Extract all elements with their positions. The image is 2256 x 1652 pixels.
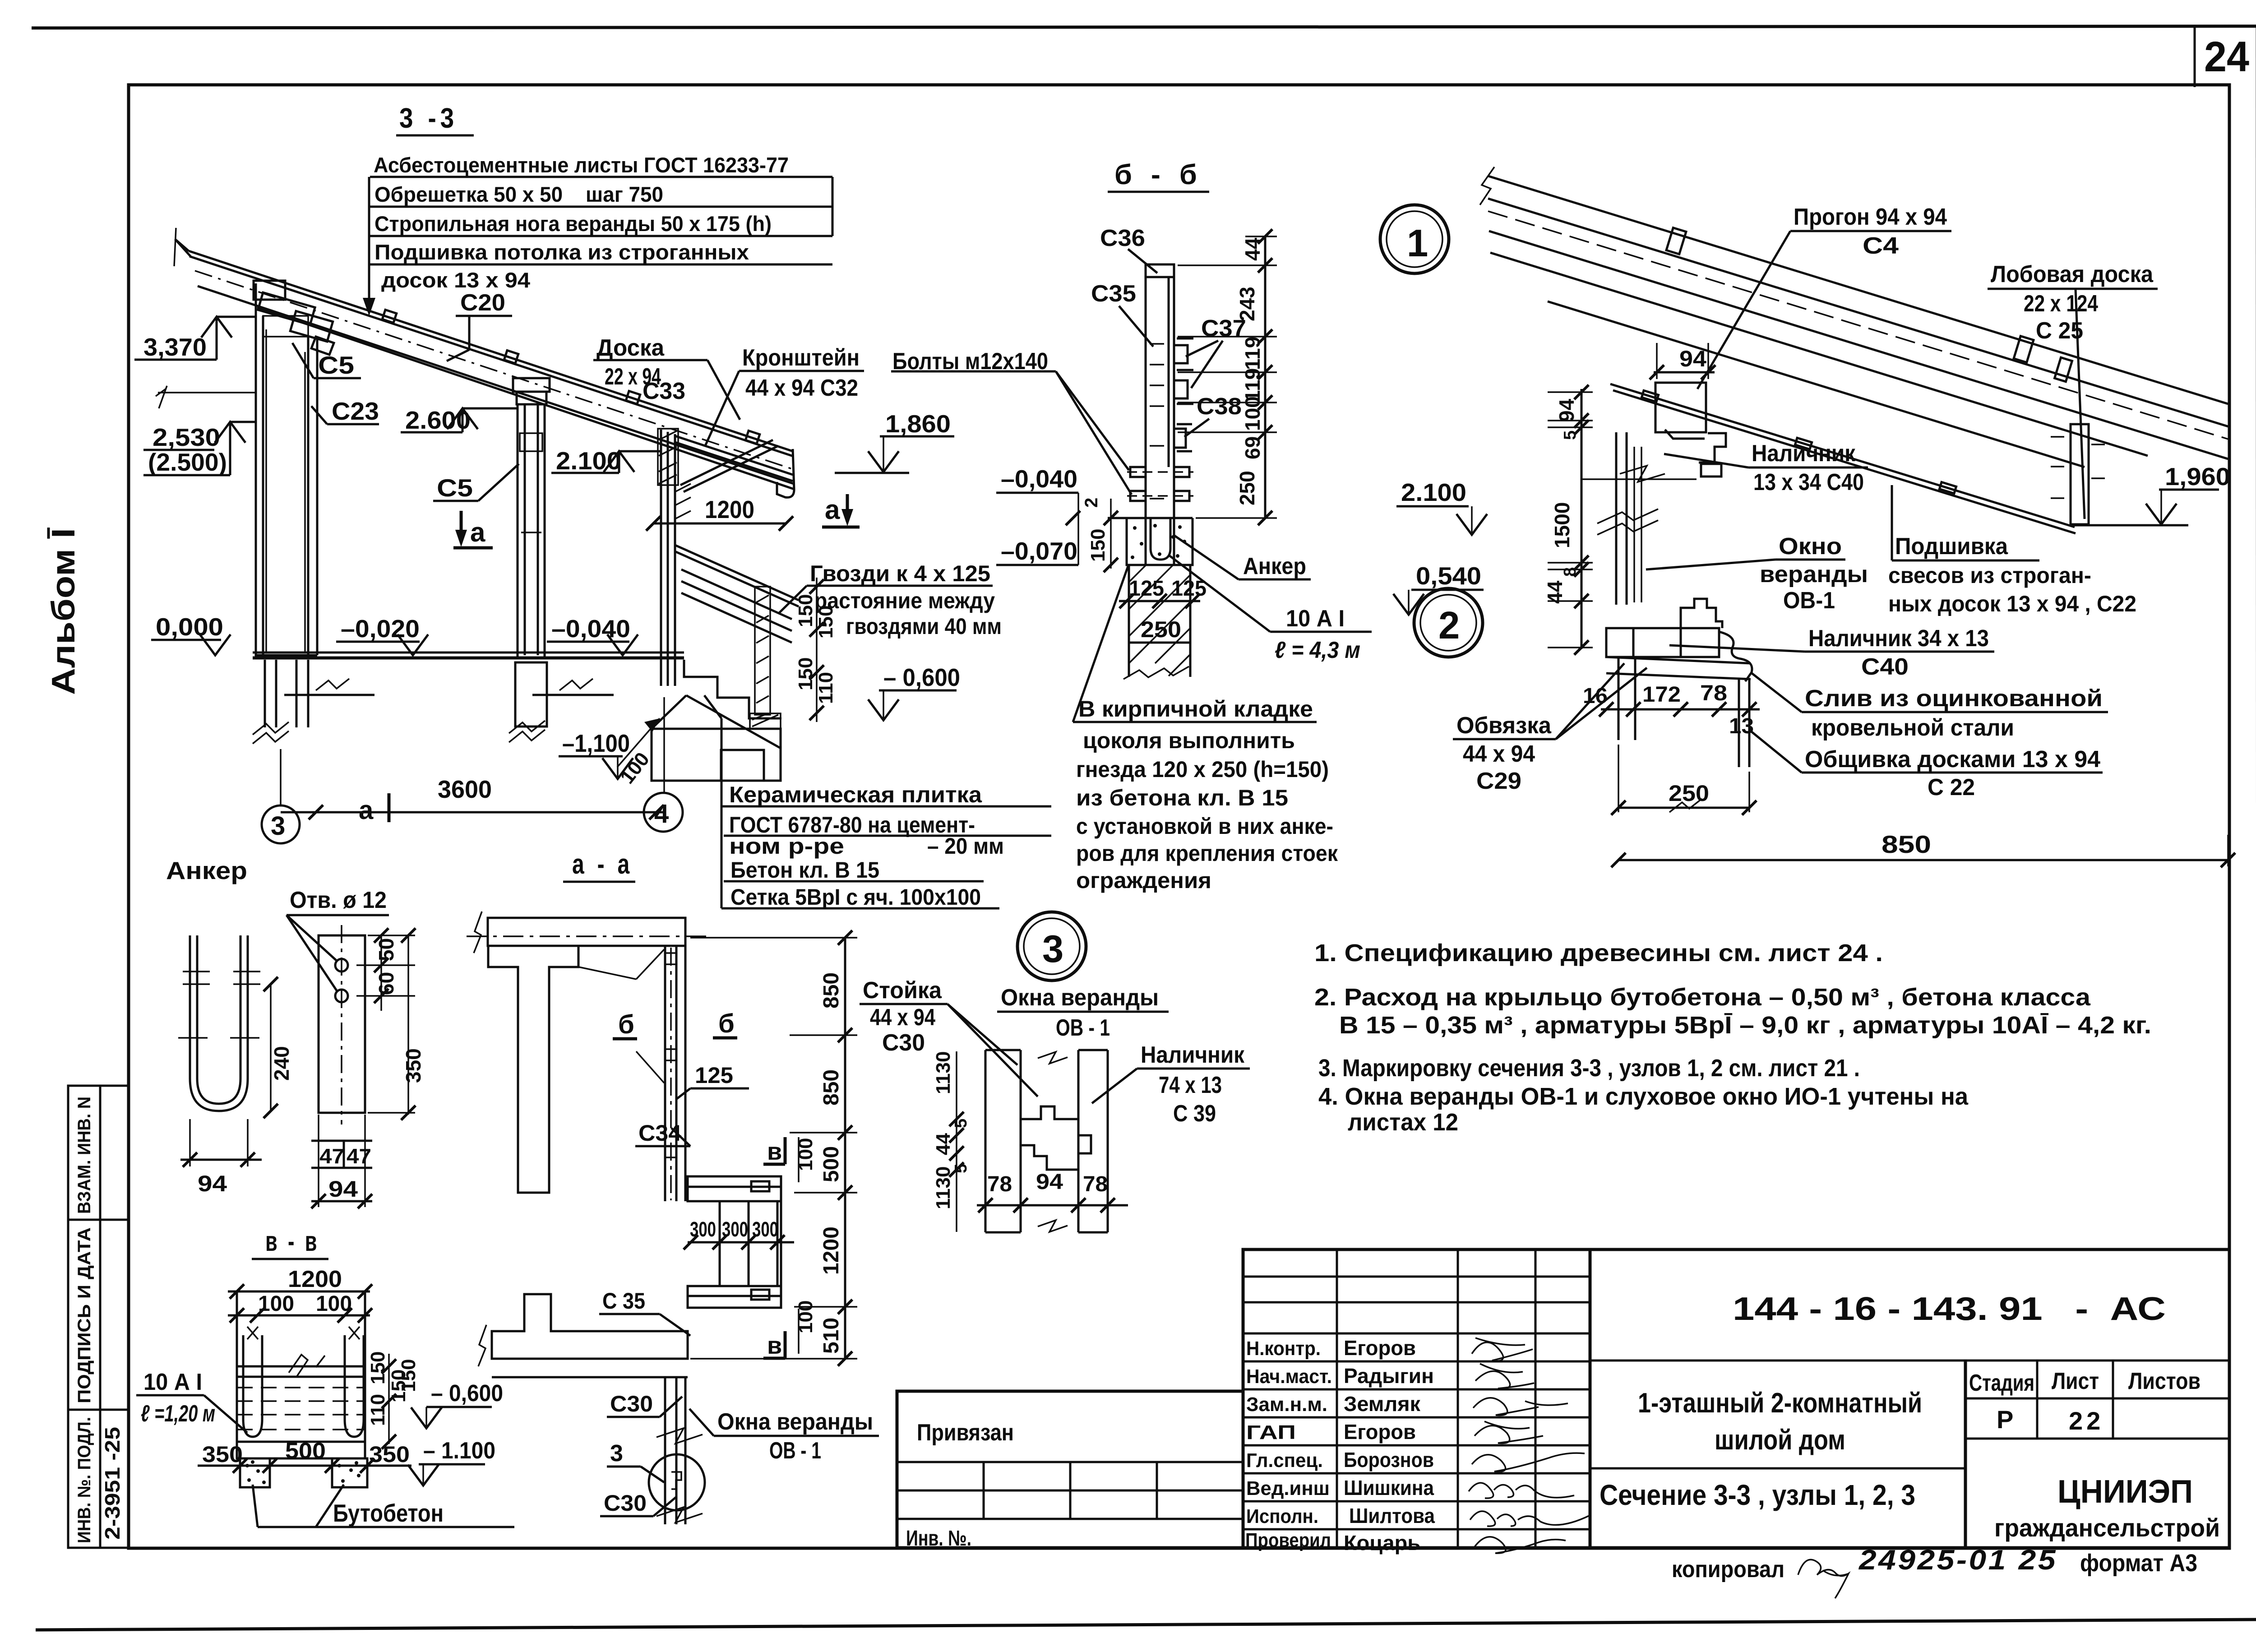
svg-text:С34: С34 xyxy=(638,1120,681,1146)
svg-text:Стропильная нога веранды 50: Стропильная нога веранды 50 х 175 (h) xyxy=(374,212,772,236)
svg-text:б - б: б - б xyxy=(1114,159,1202,190)
nalichnik step profile xyxy=(1699,433,1726,477)
roof dash-dot centreline xyxy=(195,271,793,469)
svg-text:94: 94 xyxy=(1679,346,1706,371)
svg-text:50: 50 xyxy=(374,938,398,961)
svg-text:ном р-ре: ном р-ре xyxy=(729,833,844,859)
window post plan upper xyxy=(665,946,685,1201)
svg-text:125: 125 xyxy=(695,1063,733,1088)
svg-text:–0,070: –0,070 xyxy=(1001,537,1077,565)
svg-text:С38: С38 xyxy=(1197,393,1242,420)
svg-text:Сетка 5ВрІ с яч. 100х100: Сетка 5ВрІ с яч. 100х100 xyxy=(730,884,981,910)
svg-text:ℓ = 4,3 м: ℓ = 4,3 м xyxy=(1275,637,1360,663)
svg-text:125: 125 xyxy=(1129,577,1164,601)
svg-text:Инв. №.: Инв. №. xyxy=(906,1527,971,1550)
svg-text:б: б xyxy=(718,1009,735,1038)
svg-text:Вед.инш: Вед.инш xyxy=(1246,1477,1330,1499)
svg-text:Нач.маст.: Нач.маст. xyxy=(1246,1365,1332,1388)
svg-text:850: 850 xyxy=(1882,830,1931,858)
svg-text:Лист: Лист xyxy=(2052,1368,2099,1394)
svg-text:Егоров: Егоров xyxy=(1344,1420,1416,1444)
svg-text:в: в xyxy=(767,1138,782,1165)
svg-text:С33: С33 xyxy=(643,378,685,404)
post board joint dashes xyxy=(1150,344,1164,499)
rafter line lower xyxy=(1548,301,2085,467)
svg-text:Бетон кл. В 15: Бетон кл. В 15 xyxy=(730,857,879,883)
svg-text:Радыгин: Радыгин xyxy=(1344,1364,1434,1388)
svg-text:100: 100 xyxy=(1241,396,1264,431)
svg-text:С30: С30 xyxy=(882,1030,925,1056)
roof sheet upper line xyxy=(189,251,793,456)
svg-text:510: 510 xyxy=(819,1318,843,1354)
svg-text:С20: С20 xyxy=(460,290,505,316)
svg-text:С23: С23 xyxy=(332,397,379,425)
roof board band xyxy=(198,286,794,489)
sill box upper xyxy=(688,1176,781,1201)
svg-text:Обрешетка 50 х 50 шаг 750: Обрешетка 50 х 50 шаг 750 xyxy=(374,182,663,206)
top beam plan xyxy=(488,918,685,946)
left wall xyxy=(256,283,317,658)
svg-text:8: 8 xyxy=(1561,567,1580,577)
svg-text:110: 110 xyxy=(367,1394,389,1426)
sheet number box xyxy=(2194,27,2196,87)
middle post cap beam xyxy=(513,378,550,404)
podshivka band xyxy=(1610,384,2076,533)
window frame lines right of post xyxy=(1634,447,1641,602)
svg-text:ограждения: ограждения xyxy=(1076,868,1211,893)
board right of post xyxy=(1739,679,1749,767)
window frame profile between posts xyxy=(1021,1106,1091,1170)
post below detail2 xyxy=(1618,657,1635,740)
svg-text:Окна веранды: Окна веранды xyxy=(717,1409,873,1435)
svg-text:Прогон 94 х 94: Прогон 94 х 94 xyxy=(1794,204,1947,230)
svg-text:94: 94 xyxy=(1555,398,1578,422)
svg-text:а: а xyxy=(470,517,485,547)
svg-text:С 22: С 22 xyxy=(1928,774,1975,801)
svg-text:Лобовая доска: Лобовая доска xyxy=(1991,261,2154,287)
v-v rotated dim labels xyxy=(367,1351,410,1426)
svg-text:– 0,600: – 0,600 xyxy=(431,1380,503,1407)
svg-text:Керамическая плитка: Керамическая плитка xyxy=(729,782,982,807)
svg-text:кровельной стали: кровельной стали xyxy=(1811,715,2014,741)
svg-text:243: 243 xyxy=(1235,287,1259,321)
svg-text:Наличник: Наличник xyxy=(1141,1042,1245,1068)
svg-text:3,370: 3,370 xyxy=(143,333,207,361)
svg-text:С35: С35 xyxy=(1091,281,1136,307)
svg-text:С30: С30 xyxy=(610,1391,653,1416)
svg-text:24: 24 xyxy=(2204,33,2249,81)
window below floor xyxy=(665,1377,685,1524)
svg-text:350: 350 xyxy=(402,1048,425,1083)
svg-text:–0,040: –0,040 xyxy=(551,615,630,643)
svg-text:ИНВ. №. ПОДЛ.: ИНВ. №. ПОДЛ. xyxy=(74,1417,94,1543)
svg-text:144 - 16 - 143. 91 - АС: 144 - 16 - 143. 91 - АС xyxy=(1733,1291,2166,1327)
svg-text:1200: 1200 xyxy=(705,495,754,523)
svg-text:С5: С5 xyxy=(437,474,473,502)
svg-text:ОВ-1: ОВ-1 xyxy=(1783,588,1835,614)
svg-text:С30: С30 xyxy=(604,1490,647,1516)
svg-text:ВЗАМ. ИНВ. N: ВЗАМ. ИНВ. N xyxy=(74,1097,94,1214)
svg-text:ОВ - 1: ОВ - 1 xyxy=(1056,1015,1110,1041)
sheet joint marks on roof xyxy=(1666,228,2072,382)
lower T wall plan xyxy=(492,1294,688,1359)
svg-text:44 х 94: 44 х 94 xyxy=(870,1004,935,1031)
sheet outer top border line xyxy=(32,26,2256,28)
svg-text:С4: С4 xyxy=(1863,233,1899,259)
svg-text:С40: С40 xyxy=(1861,654,1909,680)
svg-text:250: 250 xyxy=(1235,471,1259,505)
svg-text:Асбестоцементные листы ГОСТ 1: Асбестоцементные листы ГОСТ 16233-77 xyxy=(374,153,789,177)
grid circle 4 xyxy=(644,793,683,832)
svg-text:22: 22 xyxy=(2069,1407,2104,1435)
svg-text:ПОДПИСЬ И ДАТА: ПОДПИСЬ И ДАТА xyxy=(74,1227,94,1403)
wall break mark detail1 xyxy=(1620,466,1665,482)
leader dims 940 wall xyxy=(158,392,256,393)
node circle 1 xyxy=(1380,205,1449,273)
pier break marks xyxy=(253,722,289,744)
svg-text:Окно: Окно xyxy=(1779,533,1842,560)
bracket С38 xyxy=(1174,424,1192,451)
vertical bars between sills (300 300 300) xyxy=(720,1201,781,1286)
signature names column xyxy=(1344,1336,1435,1555)
svg-text:250: 250 xyxy=(1669,781,1709,806)
svg-text:1200: 1200 xyxy=(819,1226,843,1275)
svg-text:ЦНИИЭП: ЦНИИЭП xyxy=(2057,1474,2193,1510)
svg-text:в: в xyxy=(767,1332,782,1359)
svg-text:Отв. ø 12: Отв. ø 12 xyxy=(290,887,387,913)
right post top hatch block xyxy=(658,429,678,485)
svg-text:Проверил: Проверил xyxy=(1245,1529,1331,1551)
svg-text:500: 500 xyxy=(285,1438,326,1463)
roof right end cut xyxy=(777,449,794,497)
svg-text:С5: С5 xyxy=(318,351,354,379)
svg-text:0,000: 0,000 xyxy=(156,613,223,641)
svg-text:досок 13 х 94: досок 13 х 94 xyxy=(381,268,530,292)
svg-text:Наличник: Наличник xyxy=(1752,440,1856,467)
svg-text:Привязан: Привязан xyxy=(917,1420,1014,1446)
floor line xyxy=(253,657,684,660)
svg-text:В 15 – 0,35 м³ , арматуры 5: В 15 – 0,35 м³ , арматуры 5ВрĪ – 9,0 кг … xyxy=(1339,1012,2151,1039)
svg-text:3: 3 xyxy=(610,1440,623,1467)
svg-text:78: 78 xyxy=(987,1172,1012,1196)
svg-text:Егоров: Егоров xyxy=(1344,1336,1416,1360)
svg-text:Слив из оцинкованной: Слив из оцинкованной xyxy=(1805,685,2103,712)
footings stippled xyxy=(240,1458,367,1487)
svg-text:13: 13 xyxy=(1729,714,1754,738)
svg-text:В кирпичной кладке: В кирпичной кладке xyxy=(1078,696,1313,722)
boards cross sections on podshivka xyxy=(1641,390,1956,493)
break marks detail3 xyxy=(1038,1052,1068,1064)
spec table rules xyxy=(369,177,832,296)
svg-text:Гвозди к 4 х 125: Гвозди к 4 х 125 xyxy=(810,561,990,586)
left wall pier below floor xyxy=(265,660,308,727)
svg-text:150: 150 xyxy=(1087,529,1109,562)
svg-text:1130: 1130 xyxy=(932,1166,954,1209)
post break mark xyxy=(1597,509,1658,535)
svg-text:4: 4 xyxy=(654,799,669,828)
svg-text:3: 3 xyxy=(1042,928,1063,971)
note В кирпичной кладке xyxy=(1076,696,1338,893)
svg-text:С29: С29 xyxy=(1476,768,1521,794)
svg-text:119: 119 xyxy=(1241,337,1264,370)
anchor plate side view xyxy=(319,935,365,1113)
svg-text:–0,040: –0,040 xyxy=(1001,465,1077,493)
b-b dim chain rotated labels xyxy=(1235,237,1264,505)
svg-text:44 х 94 С32: 44 х 94 С32 xyxy=(745,375,858,401)
svg-text:ГАП: ГАП xyxy=(1246,1421,1296,1444)
svg-text:Шилтова: Шилтова xyxy=(1349,1504,1435,1527)
svg-text:–0,020: –0,020 xyxy=(341,615,420,643)
svg-text:350: 350 xyxy=(369,1442,410,1467)
svg-text:250: 250 xyxy=(1141,617,1181,642)
svg-text:47: 47 xyxy=(347,1144,371,1168)
svg-text:47: 47 xyxy=(319,1144,344,1168)
small window profile in circle xyxy=(671,1472,681,1489)
svg-text:1. Спецификацию древесины с: 1. Спецификацию древесины см. лист 24 . xyxy=(1314,939,1883,967)
right dim chain of б-б xyxy=(1264,236,1267,518)
svg-text:44: 44 xyxy=(1241,237,1264,261)
svg-text:Кронштейн: Кронштейн xyxy=(742,345,860,371)
svg-text:Подшивка потолка из строганных: Подшивка потолка из строганных xyxy=(374,240,749,264)
brick hatch below xyxy=(1129,565,1190,677)
post C35 xyxy=(1146,264,1174,565)
grid circle 3 xyxy=(262,805,300,843)
svg-text:300: 300 xyxy=(752,1217,778,1241)
middle pier below floor xyxy=(515,662,547,727)
svg-text:– 0,600: – 0,600 xyxy=(883,663,960,691)
svg-text:1-эташный 2-комнатный: 1-эташный 2-комнатный xyxy=(1638,1388,1922,1419)
svg-text:Окна веранды: Окна веранды xyxy=(1001,985,1159,1011)
svg-text:Стойка: Стойка xyxy=(863,977,942,1004)
svg-text:ных досок 13 х 94 , С22: ных досок 13 х 94 , С22 xyxy=(1888,591,2136,616)
svg-text:Стадия: Стадия xyxy=(1969,1370,2034,1396)
railing baluster xyxy=(755,587,770,715)
a-a dim chain rotated labels xyxy=(819,972,843,1354)
svg-text:листах 12: листах 12 xyxy=(1348,1109,1458,1136)
svg-text:1500: 1500 xyxy=(1550,502,1574,548)
middle post window stop detail xyxy=(520,433,542,532)
anchor U-bar front xyxy=(190,935,248,1111)
svg-text:24925-01 25: 24925-01 25 xyxy=(1858,1545,2057,1576)
node circle 3 xyxy=(1017,912,1086,981)
svg-text:1,860: 1,860 xyxy=(885,410,951,438)
svg-text:ОВ - 1: ОВ - 1 xyxy=(769,1438,821,1464)
steps xyxy=(684,660,781,718)
svg-text:44: 44 xyxy=(1543,580,1567,604)
bracket horizontal member xyxy=(675,436,793,481)
svg-text:2. Расход на крыльцо бутобе: 2. Расход на крыльцо бутобетона – 0,50 м… xyxy=(1314,984,2091,1011)
node circle 2 xyxy=(1414,588,1483,657)
svg-text:850: 850 xyxy=(819,1069,843,1106)
lower floor double line xyxy=(492,1376,688,1379)
concrete stipple dots xyxy=(1131,524,1186,559)
right dim chain а-а xyxy=(844,938,846,1359)
svg-text:1,960: 1,960 xyxy=(2165,463,2230,491)
svg-text:веранды: веранды xyxy=(1760,561,1868,588)
svg-text:78: 78 xyxy=(1083,1172,1108,1196)
break mark center xyxy=(289,1355,325,1376)
svg-text:Шишкина: Шишкина xyxy=(1344,1476,1434,1499)
foundation concrete cap xyxy=(1108,518,1193,565)
svg-text:44 х 94: 44 х 94 xyxy=(1463,741,1535,767)
title block outline xyxy=(1243,1249,2229,1548)
svg-text:5: 5 xyxy=(1561,430,1580,440)
svg-text:13 х 34 С40: 13 х 34 С40 xyxy=(1753,469,1864,495)
svg-text:цоколя выполнить: цоколя выполнить xyxy=(1083,728,1295,753)
svg-text:Бутобетон: Бутобетон xyxy=(333,1499,444,1527)
svg-text:2: 2 xyxy=(1082,498,1101,508)
svg-text:в - в: в - в xyxy=(265,1226,319,1257)
svg-text:3 -3: 3 -3 xyxy=(399,103,458,134)
signatures scribbles xyxy=(1469,1338,1590,1553)
bracket С37 xyxy=(1174,338,1193,404)
svg-text:110: 110 xyxy=(815,672,837,704)
detail1 left dim rotated labels xyxy=(1543,398,1580,604)
signature table rows xyxy=(1243,1276,1590,1278)
svg-text:граждансельстрой: граждансельстрой xyxy=(1994,1513,2220,1542)
svg-text:растояние между: растояние между xyxy=(814,588,995,613)
svg-text:Листов: Листов xyxy=(2128,1368,2201,1394)
svg-text:ℓ =1,20 м: ℓ =1,20 м xyxy=(141,1401,215,1427)
stair rotated dim labels xyxy=(795,594,837,704)
svg-text:Борознов: Борознов xyxy=(1344,1448,1434,1472)
detail3 rotated dim labels xyxy=(932,1051,971,1209)
dashed reinforcement lines xyxy=(237,1388,365,1430)
svg-text:1130: 1130 xyxy=(932,1051,954,1094)
svg-text:Анкер: Анкер xyxy=(166,856,247,884)
ceramic tile note block xyxy=(729,782,1004,910)
svg-text:Зам.н.м.: Зам.н.м. xyxy=(1246,1393,1327,1416)
svg-text:44: 44 xyxy=(932,1133,954,1155)
svg-text:Сечение 3-3 , узлы 1, 2, 3: Сечение 3-3 , узлы 1, 2, 3 xyxy=(1600,1479,1915,1511)
svg-text:850: 850 xyxy=(819,972,843,1009)
bracket hatch small xyxy=(675,484,691,519)
svg-text:свесов из строган-: свесов из строган- xyxy=(1888,563,2091,588)
bracket diagonal xyxy=(680,440,778,492)
svg-text:Подшивка: Подшивка xyxy=(1895,533,2008,560)
svg-text:3. Маркировку сечения 3-3 ,: 3. Маркировку сечения 3-3 , узлов 1, 2 с… xyxy=(1318,1055,1860,1082)
svg-text:а: а xyxy=(359,796,374,825)
bolts at post base xyxy=(1130,467,1189,501)
svg-text:3: 3 xyxy=(271,811,285,841)
svg-text:копировал: копировал xyxy=(1672,1556,1784,1583)
svg-text:Земляк: Земляк xyxy=(1344,1392,1421,1416)
svg-text:94: 94 xyxy=(198,1171,227,1196)
svg-text:С 39: С 39 xyxy=(1173,1101,1216,1127)
plate dims 50 60 350 xyxy=(374,938,425,1083)
svg-text:350: 350 xyxy=(202,1442,243,1467)
svg-text:Гл.спец.: Гл.спец. xyxy=(1246,1449,1323,1472)
sill box lower xyxy=(688,1286,781,1308)
lattice blocks on roof xyxy=(382,310,760,444)
svg-text:гнезда 120 х 250 (h=150): гнезда 120 х 250 (h=150) xyxy=(1076,757,1329,782)
spec leader arrow to roof xyxy=(368,296,370,311)
svg-text:Р: Р xyxy=(1997,1405,2013,1434)
left T wall plan xyxy=(488,946,578,1193)
svg-text:б: б xyxy=(618,1010,634,1039)
stадия header cell xyxy=(1964,1360,1967,1548)
label Гвозди block xyxy=(810,561,1002,639)
svg-text:0,540: 0,540 xyxy=(1416,562,1481,590)
svg-text:69: 69 xyxy=(1241,436,1264,459)
right veranda post xyxy=(661,430,675,686)
left wall window frame marks xyxy=(263,316,308,652)
svg-text:94: 94 xyxy=(1036,1170,1063,1194)
left dim chain detail1 xyxy=(1581,389,1583,649)
middle post xyxy=(518,404,545,658)
svg-text:–1,100: –1,100 xyxy=(562,729,630,757)
svg-text:94: 94 xyxy=(328,1176,358,1202)
svg-text:из бетона кл. В 15: из бетона кл. В 15 xyxy=(1076,785,1288,810)
svg-text:Исполн.: Исполн. xyxy=(1246,1505,1318,1527)
anchor U inside foundation xyxy=(1151,518,1170,560)
sliv S-curve xyxy=(1719,632,1752,681)
sill profile top xyxy=(1681,599,1722,628)
svg-text:– 1.100: – 1.100 xyxy=(423,1438,495,1464)
detail3 posts plan xyxy=(985,1050,1108,1232)
svg-text:гвоздями 40 мм: гвоздями 40 мм xyxy=(846,614,1002,639)
svg-text:4. Окна веранды ОВ-1 и сл: 4. Окна веранды ОВ-1 и слуховое окно ИО-… xyxy=(1318,1083,1969,1110)
step foundation block xyxy=(652,695,781,781)
signature rows labels xyxy=(1245,1337,1332,1551)
spec text table xyxy=(374,153,789,292)
svg-text:Общивка досками 13 х 94: Общивка досками 13 х 94 xyxy=(1805,746,2100,773)
svg-text:Обвязка: Обвязка xyxy=(1456,713,1552,739)
svg-text:2-3951 -25: 2-3951 -25 xyxy=(101,1427,124,1540)
section mark a down xyxy=(460,511,463,541)
obvyazka beam section xyxy=(1606,628,1719,657)
svg-text:2,530: 2,530 xyxy=(153,423,220,451)
svg-text:1: 1 xyxy=(1407,222,1428,265)
svg-text:10 А I: 10 А I xyxy=(143,1369,202,1395)
svg-text:74 х 13: 74 х 13 xyxy=(1159,1072,1222,1098)
lobovaya board vertical xyxy=(2071,424,2089,524)
roof band left break xyxy=(1480,167,1494,205)
svg-text:16: 16 xyxy=(1583,684,1608,708)
left margin strip table xyxy=(68,1086,129,1548)
projection diagonals xyxy=(579,949,664,1083)
svg-text:78: 78 xyxy=(1700,681,1727,705)
post below progon xyxy=(1616,432,1627,605)
svg-text:Доска: Доска xyxy=(596,335,665,361)
svg-text:240: 240 xyxy=(270,1046,293,1081)
svg-text:а: а xyxy=(825,495,840,525)
svg-text:1200: 1200 xyxy=(288,1266,342,1292)
signature table columns xyxy=(1336,1249,1338,1548)
roof slope band detail1 xyxy=(1488,176,2228,459)
detail circle at window xyxy=(649,1454,705,1510)
U anchors in в-в xyxy=(243,1335,364,1437)
porch slab box xyxy=(237,1291,365,1458)
svg-text:3600: 3600 xyxy=(438,775,492,803)
progon square 94x94 xyxy=(1655,383,1706,439)
svg-text:172: 172 xyxy=(1642,683,1681,707)
svg-text:Коцарь: Коцарь xyxy=(1344,1531,1420,1555)
svg-text:150: 150 xyxy=(795,594,817,627)
svg-text:22 х 124: 22 х 124 xyxy=(2024,291,2098,317)
small anchor detail at step xyxy=(750,713,781,729)
sheet outer bottom border line xyxy=(36,1620,2256,1630)
svg-text:с установкой в них анке-: с установкой в них анке- xyxy=(1076,814,1333,839)
ground break marks xyxy=(316,679,349,690)
stairs railing handrail xyxy=(675,545,799,606)
plate holes xyxy=(335,959,348,972)
svg-text:10 А I: 10 А I xyxy=(1286,606,1345,632)
railing slats xyxy=(681,569,792,643)
svg-text:2: 2 xyxy=(1438,604,1460,647)
svg-text:Анкер: Анкер xyxy=(1243,553,1306,579)
svg-text:Наличник 34 х 13: Наличник 34 х 13 xyxy=(1808,625,1989,652)
